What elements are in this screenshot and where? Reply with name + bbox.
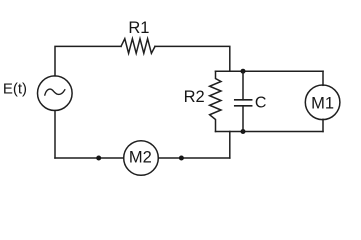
wire top (right segment after R1) xyxy=(155,46,230,71)
node junction dot left xyxy=(96,156,101,161)
resistor R1 xyxy=(121,39,155,54)
meter M1 xyxy=(305,71,340,131)
wire left lower xyxy=(54,111,56,159)
svg-text:M1: M1 xyxy=(311,94,334,112)
node dot top of C branch xyxy=(241,69,246,74)
wire riser bottom-right xyxy=(229,132,231,159)
svg-text:R2: R2 xyxy=(184,88,205,106)
wire top rail of parallel section xyxy=(216,70,324,72)
sine symbol inside source xyxy=(45,89,65,95)
capacitor C xyxy=(235,71,252,131)
wire bottom (left of M2) xyxy=(55,157,124,159)
svg-text:M2: M2 xyxy=(129,148,152,166)
svg-text:E(t): E(t) xyxy=(3,81,27,98)
meter M2 xyxy=(124,141,159,176)
source E(t) xyxy=(38,76,73,111)
svg-text:R1: R1 xyxy=(128,19,149,37)
svg-text:C: C xyxy=(255,94,267,111)
resistor R2 xyxy=(210,71,221,131)
node junction dot right xyxy=(179,156,184,161)
wire bottom rail of parallel section xyxy=(216,131,324,133)
wire top (left segment before R1) xyxy=(55,46,121,76)
node dot bottom of C branch xyxy=(241,129,246,134)
wire bottom (right of M2) xyxy=(158,157,230,159)
